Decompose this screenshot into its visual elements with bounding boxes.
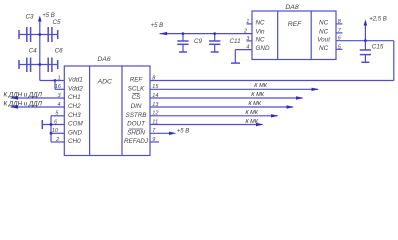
- svg-text:2: 2: [243, 29, 247, 35]
- svg-text:Vin: Vin: [256, 29, 265, 36]
- wire: COM pin 6 with terminal: [42, 119, 64, 129]
- capacitor C3: [26, 14, 35, 42]
- wire: SCLK pin 15 to MCU: [150, 83, 319, 91]
- svg-text:13: 13: [152, 102, 159, 108]
- svg-text:REF: REF: [288, 21, 302, 28]
- capacitor C15: [360, 41, 384, 63]
- svg-text:Vout: Vout: [317, 37, 330, 44]
- svg-text:C9: C9: [194, 38, 203, 45]
- svg-text:К ДДН и ДДЛ: К ДДН и ДДЛ: [4, 100, 43, 107]
- DA8 left pin labels: [256, 20, 270, 53]
- svg-text:REF: REF: [130, 77, 144, 84]
- capacitor C11: [209, 34, 241, 52]
- DA6 left pin labels: [68, 77, 83, 146]
- svg-text:К МК: К МК: [254, 83, 267, 89]
- svg-text:C3: C3: [26, 14, 35, 21]
- wire: REFADJ pin 9 stub: [150, 137, 159, 143]
- svg-text:К МК: К МК: [245, 110, 258, 116]
- svg-text:CH2: CH2: [68, 103, 81, 110]
- wire: SSTRB pin 12 to MCU: [150, 110, 279, 118]
- svg-text:SCLK: SCLK: [128, 86, 145, 93]
- wire: GND pin 4 to common: [231, 45, 252, 64]
- svg-text:DA6: DA6: [97, 56, 110, 63]
- svg-text:2: 2: [55, 137, 59, 143]
- wire: Vin pin 2 from +5V: [151, 23, 252, 35]
- DA8 pin 7 stub: [336, 28, 342, 34]
- DA8 pin 1 stub: [246, 19, 252, 25]
- svg-text:16: 16: [55, 84, 62, 90]
- svg-text:К МК: К МК: [245, 119, 258, 125]
- wire: common tie vertical: [50, 116, 52, 142]
- DA8 right pin labels: [317, 20, 330, 53]
- DA8 pin 8 stub: [336, 19, 342, 25]
- DA6 right pin labels: [124, 77, 149, 146]
- svg-text:11: 11: [152, 119, 158, 125]
- svg-text:+5 В: +5 В: [151, 23, 164, 29]
- svg-text:10: 10: [52, 128, 59, 134]
- node: C9 junction: [182, 32, 185, 35]
- svg-text:1: 1: [246, 19, 249, 25]
- node: Vdd branch: [54, 79, 57, 82]
- svg-text:9: 9: [152, 137, 155, 143]
- wire: CS pin 14 to MCU: [150, 92, 304, 100]
- svg-text:ADC: ADC: [97, 78, 112, 85]
- wire: Vdd1 pin 1 from +5V rail: [40, 75, 65, 81]
- capacitor C5: [48, 19, 61, 42]
- svg-text:+5 В: +5 В: [177, 128, 190, 134]
- svg-text:К ДДН и ДДЛ: К ДДН и ДДЛ: [4, 92, 43, 99]
- node: GND junction: [50, 132, 53, 135]
- ADC chip DA6: [64, 56, 150, 156]
- svg-text:+2,5 В: +2,5 В: [369, 16, 387, 22]
- svg-text:C11: C11: [230, 38, 241, 45]
- svg-text:C6: C6: [55, 48, 64, 55]
- DA8 pin 3 stub: [246, 36, 252, 42]
- svg-text:DA8: DA8: [285, 4, 298, 11]
- wire: CH0 pin 2: [51, 137, 64, 143]
- svg-text:CH3: CH3: [68, 112, 81, 119]
- voltage reference chip DA8: [252, 4, 336, 60]
- svg-text:DOUT: DOUT: [127, 121, 146, 128]
- svg-text:C4: C4: [29, 48, 38, 55]
- svg-text:CH0: CH0: [68, 138, 81, 145]
- svg-text:К МК: К МК: [248, 101, 261, 107]
- wire: DIN pin 13 to MCU: [150, 101, 294, 109]
- svg-text:NC: NC: [319, 29, 329, 36]
- svg-text:REFADJ: REFADJ: [124, 138, 149, 145]
- svg-text:CH1: CH1: [68, 94, 81, 101]
- svg-text:GND: GND: [68, 130, 82, 137]
- +2,5 V output terminal arrow: [364, 16, 387, 40]
- +5 V supply terminal arrow (top-left): [38, 13, 55, 80]
- svg-text:12: 12: [152, 111, 158, 117]
- svg-text:GND: GND: [256, 45, 270, 52]
- wire: bypass row 2: [19, 60, 58, 69]
- wire: SHDN pin 7 to +5V: [150, 128, 189, 135]
- svg-text:SHDN: SHDN: [127, 130, 145, 137]
- capacitor C9: [177, 34, 202, 52]
- svg-text:DIN: DIN: [131, 103, 142, 110]
- svg-text:Vdd1: Vdd1: [68, 77, 83, 84]
- wire: bypass row 1 (+5V to common): [19, 30, 58, 39]
- capacitor C6: [48, 48, 63, 72]
- svg-text:SSTRB: SSTRB: [126, 112, 147, 119]
- node: C11 junction: [213, 32, 216, 35]
- wire: CH2 pin 4 input from pressure sensors: [4, 100, 65, 108]
- svg-text:4: 4: [58, 102, 61, 108]
- svg-text:15: 15: [152, 84, 159, 90]
- svg-text:К МК: К МК: [251, 92, 264, 98]
- node: COM junction: [50, 123, 53, 126]
- svg-text:NC: NC: [319, 20, 329, 27]
- wire: Vout pin 6 to REF net: [336, 36, 394, 42]
- svg-text:COM: COM: [68, 121, 83, 128]
- DA8 pin 5 stub: [336, 44, 342, 50]
- node: junction row2 / +5V rail: [38, 63, 41, 66]
- wire: REF pin 8 net to DA8 output: [150, 41, 394, 82]
- svg-text:NC: NC: [256, 20, 266, 27]
- node: Vout junction: [364, 39, 367, 42]
- wire: Vdd2 pin 16: [55, 81, 64, 91]
- svg-text:Vdd2: Vdd2: [68, 86, 83, 93]
- node: junction row1 / +5V rail: [38, 33, 41, 36]
- svg-text:1: 1: [58, 75, 61, 81]
- svg-text:14: 14: [152, 93, 158, 99]
- svg-text:CS: CS: [132, 94, 142, 101]
- wire: DOUT pin 11 to MCU: [150, 119, 264, 126]
- wire: GND pin 10: [51, 128, 64, 134]
- svg-text:C5: C5: [53, 19, 62, 26]
- svg-text:NC: NC: [256, 37, 266, 44]
- svg-text:C15: C15: [372, 44, 384, 51]
- wire: CH1 pin 3 input from pressure sensors: [4, 92, 65, 100]
- capacitor C4: [27, 48, 37, 72]
- svg-text:NC: NC: [319, 45, 329, 52]
- wire: CH3 pin 5 tied to common: [51, 111, 64, 117]
- svg-text:4: 4: [246, 45, 249, 51]
